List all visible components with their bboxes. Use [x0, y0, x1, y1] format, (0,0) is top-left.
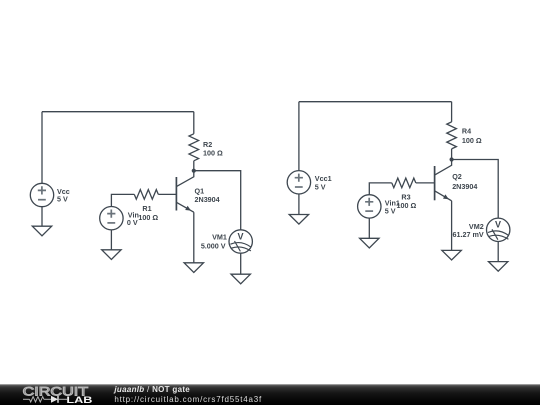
wire: Vcc to ground — [41, 207, 43, 227]
ground (below Vin1) — [360, 238, 379, 248]
svg-text:R4: R4 — [462, 127, 471, 136]
label R3 value — [397, 192, 417, 210]
svg-text:LAB: LAB — [66, 395, 93, 405]
svg-text:5.000 V: 5.000 V — [201, 241, 226, 250]
wire: R1 to Q1 base — [158, 193, 176, 195]
label Vcc1 value — [315, 174, 332, 191]
svg-text:5 V: 5 V — [315, 182, 326, 191]
wire: Vin up and right to R1 — [111, 194, 134, 206]
label R4 value — [462, 127, 482, 145]
wire: R2 top lead — [193, 112, 195, 134]
transistor Q1 — [176, 171, 193, 213]
wire: Q2 emitter to ground — [451, 201, 453, 251]
label R1 value — [138, 204, 158, 222]
ground (Q1 emitter) — [184, 263, 203, 273]
wire: collector node to VM1 — [194, 171, 241, 230]
wire: Vcc1 to ground — [298, 194, 300, 215]
resistor R3 — [392, 178, 416, 188]
wire: right top rail (Vcc1 to R4) — [299, 101, 452, 103]
wire: Vin to ground — [110, 230, 112, 250]
label VM2 value — [453, 222, 484, 239]
ground (below Vcc1) — [289, 215, 308, 225]
wire: VM1 to ground — [240, 253, 242, 274]
voltage source Vin — [100, 207, 123, 230]
svg-text:VM1: VM1 — [212, 233, 227, 242]
ground (below Vcc) — [32, 226, 51, 236]
wire: Vin1 up and right to R3 — [369, 183, 392, 195]
voltmeter VM1 — [229, 230, 252, 253]
wire: R4 bottom lead to collector node — [451, 149, 453, 160]
svg-text:2N3904: 2N3904 — [195, 195, 220, 204]
voltage source Vin1 — [358, 195, 381, 218]
label Vin value — [127, 211, 139, 227]
wire: left top rail (Vcc to R2) — [42, 111, 194, 113]
node: Q2 collector junction — [450, 157, 454, 161]
resistor R1 — [134, 190, 158, 200]
resistor R2 — [189, 134, 199, 161]
svg-text:100 Ω: 100 Ω — [203, 149, 223, 158]
resistor R4 — [447, 122, 457, 149]
label R2 value — [203, 140, 223, 157]
wire: Vin1 to ground — [368, 218, 370, 238]
svg-text:R1: R1 — [142, 204, 151, 213]
ground (Q2 emitter) — [442, 250, 461, 260]
logo schematic squiggle (resistor + diode) — [23, 396, 67, 403]
wire: R4 top lead — [451, 102, 453, 122]
svg-text:100 Ω: 100 Ω — [462, 136, 482, 145]
footer bar — [0, 384, 540, 405]
wire: left vertical drop from rail to Vcc — [41, 112, 43, 184]
svg-text:Q2: Q2 — [452, 172, 462, 181]
transistor Q2 — [435, 160, 452, 201]
svg-text:2N3904: 2N3904 — [452, 182, 477, 191]
ground (below VM2) — [489, 262, 508, 272]
svg-text:http://circuitlab.com/crs7fd55: http://circuitlab.com/crs7fd55t4a3f — [114, 395, 262, 404]
node: Q1 collector junction — [192, 169, 196, 173]
wire: VM2 to ground — [497, 242, 499, 262]
svg-text:100 Ω: 100 Ω — [138, 213, 158, 222]
wire: R3 to Q2 base — [416, 182, 435, 184]
svg-text:V: V — [495, 220, 501, 230]
wire: right vertical drop from rail to Vcc1 — [298, 102, 300, 171]
svg-text:61.27 mV: 61.27 mV — [453, 230, 484, 239]
label VM1 value — [201, 233, 227, 251]
svg-text:juaanlb / NOT gate: juaanlb / NOT gate — [113, 385, 190, 394]
svg-text:V: V — [237, 231, 243, 241]
svg-text:5 V: 5 V — [57, 195, 68, 204]
voltage source Vcc1 — [287, 171, 310, 194]
svg-text:0 V: 0 V — [127, 218, 138, 227]
ground (below VM1) — [231, 274, 250, 284]
wire: Q1 emitter to ground — [193, 212, 195, 263]
ground (below Vin) — [102, 250, 121, 260]
svg-text:5 V: 5 V — [385, 207, 396, 216]
wire: R2 bottom lead to collector node — [193, 161, 195, 171]
voltmeter VM2 — [487, 218, 510, 241]
label Vin1 value — [385, 199, 400, 216]
label Q1 value — [195, 187, 220, 205]
wire: collector node to VM2 — [452, 160, 499, 219]
label Vcc value — [57, 187, 70, 204]
label Q2 value — [452, 172, 477, 191]
voltage source Vcc — [30, 183, 53, 206]
